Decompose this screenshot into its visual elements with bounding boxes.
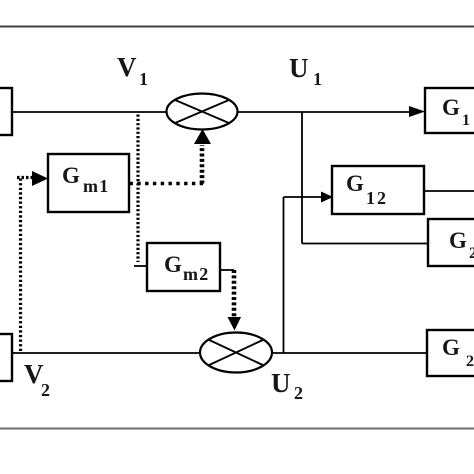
summing junction S1 (multiplier circle): [167, 94, 238, 130]
wire into G12: [284, 196, 322, 198]
summing junction S2 (multiplier circle): [200, 333, 272, 373]
dotted wire V2 feedforward into Gm1 (horizontal): [17, 176, 33, 179]
wire U1 branch down: [301, 112, 303, 244]
svg-text:G: G: [442, 335, 460, 360]
svg-text:1: 1: [139, 69, 148, 89]
block G22 (cut at right edge): [427, 330, 474, 376]
svg-text:2: 2: [466, 353, 474, 370]
block G21 (cut at right edge): [428, 219, 474, 266]
node label V2: [24, 359, 50, 400]
arrowhead into Gm1: [32, 171, 48, 186]
node label U1: [289, 53, 322, 89]
wire G12 output to right edge: [424, 190, 474, 192]
dotted wire Gm2 down to summing junction 2 (vertical): [232, 270, 237, 318]
dotted wire Gm1 output (horizontal): [130, 182, 204, 185]
frame top border line: [0, 26, 474, 28]
wire U1 to block G11: [238, 111, 411, 113]
arrowhead into G12: [321, 192, 333, 203]
block Gm2: [147, 243, 220, 291]
svg-text:G: G: [346, 171, 364, 196]
input block V1 (cut at left edge): [0, 88, 12, 135]
input block V2 (cut at left edge): [0, 334, 12, 381]
svg-text:G: G: [442, 95, 460, 120]
svg-text:2: 2: [41, 380, 50, 400]
dotted wire V2 feedforward up to Gm1 (vertical): [19, 177, 22, 352]
block Gm1: [48, 154, 129, 212]
svg-text:1: 1: [462, 112, 470, 129]
wire V2 to summing junction 2: [12, 352, 201, 354]
svg-text:2: 2: [294, 383, 303, 403]
svg-text:2: 2: [469, 245, 474, 262]
node label U2: [271, 368, 303, 403]
svg-text:m1: m1: [83, 176, 109, 196]
wire into G21: [302, 243, 428, 245]
wire U2 to block G22: [272, 352, 427, 354]
arrowhead into G11: [409, 106, 425, 117]
svg-text:G: G: [449, 228, 467, 253]
arrowhead into summing junction 2: [228, 317, 242, 331]
solid stub Gm2 output: [220, 269, 234, 271]
wire U2 branch up: [283, 197, 285, 353]
svg-text:1: 1: [313, 69, 322, 89]
dotted wire Gm1 up into summing junction 1 (vertical): [200, 145, 205, 184]
svg-text:G: G: [164, 252, 182, 277]
block G12: [332, 166, 424, 214]
svg-text:G: G: [62, 163, 80, 188]
svg-text:12: 12: [366, 188, 388, 208]
frame bottom border line: [0, 428, 474, 430]
wire V1 to summing junction 1: [12, 111, 167, 113]
block G11 (cut at right edge): [425, 88, 474, 133]
svg-text:U: U: [271, 368, 291, 398]
svg-text:U: U: [289, 53, 309, 83]
svg-text:m2: m2: [183, 264, 209, 284]
svg-text:V: V: [117, 52, 137, 82]
arrowhead into summing junction 1: [194, 129, 211, 144]
dotted wire V1 feedforward down to Gm2 (vertical): [136, 115, 139, 263]
solid stub into Gm2: [134, 265, 147, 267]
node label V1: [117, 52, 148, 89]
